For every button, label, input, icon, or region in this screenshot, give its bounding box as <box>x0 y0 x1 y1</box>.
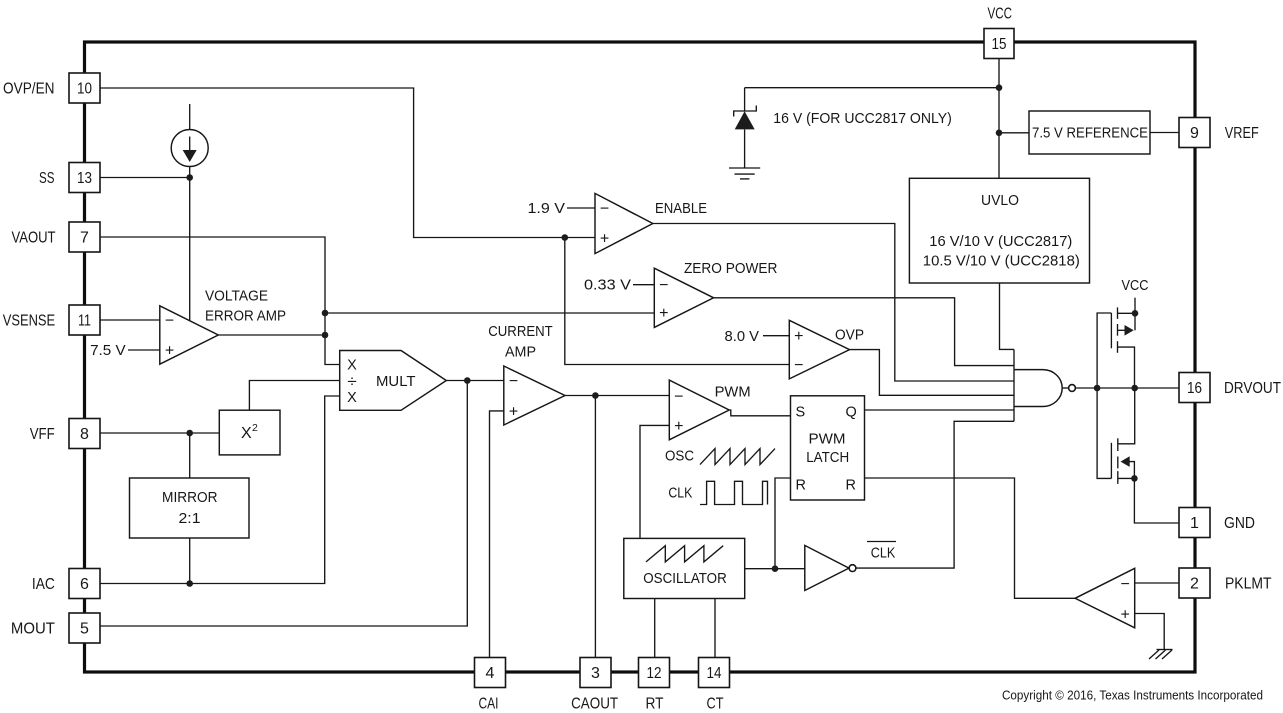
pin 11 VSENSE <box>69 305 100 335</box>
pin 6 IAC <box>69 569 100 599</box>
node error amp output junction <box>322 332 329 339</box>
wire pin7 VAOUT to node A <box>100 237 340 365</box>
svg-text:16: 16 <box>1187 380 1202 397</box>
comparator PWM <box>669 380 729 440</box>
svg-text:VFF: VFF <box>30 426 55 443</box>
pin 14 CT <box>699 658 730 688</box>
wire MULT output node down to pin5 MOUT <box>100 381 467 627</box>
block 7.5 V REFERENCE <box>1029 111 1150 154</box>
wire 0.33V to ZERO POWER minus <box>633 284 654 286</box>
svg-text:11: 11 <box>78 313 91 330</box>
svg-text:ENABLE: ENABLE <box>655 201 707 217</box>
svg-text:CLK: CLK <box>871 546 896 562</box>
svg-text:1: 1 <box>1190 515 1199 532</box>
current source I1 <box>171 104 208 178</box>
svg-text:6: 6 <box>80 576 89 593</box>
multiplier MULT <box>340 351 447 411</box>
wire current amp output to PWM minus <box>565 395 669 397</box>
block MIRROR 2:1 <box>130 478 250 538</box>
svg-text:+: + <box>1121 607 1130 624</box>
svg-text:7.5 V: 7.5 V <box>90 342 126 359</box>
pin 15 VCC <box>984 29 1014 59</box>
svg-text:Copyright © 2016, Texas Instru: Copyright © 2016, Texas Instruments Inco… <box>1002 689 1263 703</box>
node ENABLE plus junction <box>562 234 569 241</box>
ground below zener <box>729 168 760 179</box>
transistor Q2 lower MOSFET <box>1097 388 1135 484</box>
svg-text:CURRENT: CURRENT <box>488 324 553 340</box>
node MULT output junction <box>464 377 471 384</box>
node oscillator output junction <box>772 565 779 572</box>
svg-text:ERROR AMP: ERROR AMP <box>205 309 286 325</box>
svg-text:MULT: MULT <box>376 374 416 390</box>
svg-text:+: + <box>659 305 668 322</box>
svg-text:CT: CT <box>707 696 724 713</box>
outer border of IC block <box>85 42 1196 672</box>
svg-text:X: X <box>347 390 357 406</box>
wire OVP output to NAND input <box>850 350 1015 396</box>
svg-text:VOLTAGE: VOLTAGE <box>205 289 268 305</box>
node current amp output junction <box>592 392 599 399</box>
node DRVOUT <box>1131 385 1138 392</box>
svg-text:2: 2 <box>1190 576 1199 593</box>
block UVLO <box>909 178 1089 283</box>
wire pin8 VFF to X squared block <box>100 432 219 434</box>
gate NAND U4 <box>1014 370 1075 407</box>
wire oscillator node up to latch R input <box>775 478 791 569</box>
svg-text:−: − <box>794 357 803 374</box>
wire ENABLE output to NAND input <box>653 224 1014 382</box>
svg-text:10.5 V/10 V (UCC2818): 10.5 V/10 V (UCC2818) <box>923 254 1080 270</box>
zener diode D1 <box>734 88 757 168</box>
svg-text:9: 9 <box>1190 125 1199 142</box>
pin 7 VAOUT <box>69 222 100 252</box>
wire latch R output to PKLMT comparator output <box>865 478 1076 598</box>
wire MULT output to current amp minus <box>446 380 504 382</box>
svg-text:+: + <box>794 328 803 345</box>
svg-text:R: R <box>846 478 856 494</box>
wire 7.5V reference to pin9 VREF <box>1150 132 1179 134</box>
svg-text:−: − <box>509 373 518 390</box>
node upper MOSFET drain VCC <box>1132 310 1139 317</box>
pin 13 SS <box>69 163 100 193</box>
svg-text:−: − <box>1121 576 1130 593</box>
svg-text:Q: Q <box>846 405 857 421</box>
wire inverter CLK output to NAND bottom input <box>856 421 1014 568</box>
svg-text:−: − <box>165 313 174 330</box>
svg-text:GND: GND <box>1224 515 1255 532</box>
wire oscillator to pin12 RT <box>654 599 656 659</box>
wire PKLMT plus to ground <box>1135 614 1165 650</box>
comparator ZERO POWER <box>654 268 713 327</box>
wire pin10 OVP/EN to ENABLE plus input <box>100 88 595 238</box>
svg-text:7: 7 <box>80 230 89 247</box>
block X squared <box>219 410 280 455</box>
node VFF junction <box>186 430 193 437</box>
wire MIRROR block to IAC wire <box>189 538 191 584</box>
svg-text:OVP/EN: OVP/EN <box>3 81 55 98</box>
svg-text:VCC: VCC <box>1122 277 1149 294</box>
svg-text:÷: ÷ <box>347 372 356 391</box>
wire PWM comparator output to latch S input <box>729 410 790 416</box>
svg-text:−: − <box>600 201 609 218</box>
svg-text:OVP: OVP <box>835 328 864 344</box>
svg-text:CAI: CAI <box>479 696 499 713</box>
inverter U3 <box>805 545 856 590</box>
svg-text:S: S <box>796 405 806 421</box>
svg-text:10: 10 <box>77 81 92 98</box>
svg-text:+: + <box>509 404 518 421</box>
wire lower MOSFET source to pin1 GND <box>1134 478 1179 523</box>
wire pin11 VSENSE to error amp minus <box>100 319 160 321</box>
svg-text:IAC: IAC <box>32 576 55 593</box>
svg-text:ZERO POWER: ZERO POWER <box>684 261 778 277</box>
latch PWM LATCH <box>791 396 865 500</box>
svg-text:5: 5 <box>80 621 89 638</box>
op-amp current amp U2 <box>504 366 565 425</box>
pin 16 DRVOUT <box>1179 373 1210 403</box>
svg-text:3: 3 <box>591 665 600 682</box>
node VCC reference junction <box>996 130 1003 137</box>
svg-text:VSENSE: VSENSE <box>3 313 56 330</box>
wire latch Q output to NAND input <box>865 409 1015 411</box>
waveform CLK pulses <box>700 481 768 504</box>
wire pin15 VCC down to UVLO <box>998 59 1000 179</box>
svg-text:CAOUT: CAOUT <box>571 696 618 713</box>
transistor Q1 upper MOSFET <box>1097 298 1135 388</box>
wire oscillator output to inverter <box>745 568 805 570</box>
svg-text:PWM: PWM <box>715 385 751 401</box>
wire ZERO POWER output to NAND input <box>714 298 1014 366</box>
wire NAND output to pin16 DRVOUT <box>1075 387 1179 389</box>
wire pin3 CAOUT to current amp output node <box>594 396 596 659</box>
block OSCILLATOR <box>624 538 745 598</box>
svg-text:+: + <box>600 231 609 248</box>
svg-text:OSC: OSC <box>665 449 694 465</box>
svg-text:X: X <box>241 425 252 442</box>
svg-text:13: 13 <box>77 170 92 187</box>
svg-text:2: 2 <box>252 422 258 434</box>
wire X squared output to MULT divide input <box>249 381 339 411</box>
wire oscillator to pin14 CT <box>714 599 716 659</box>
svg-text:−: − <box>659 277 668 294</box>
wire NAND input bus <box>1013 349 1015 421</box>
svg-text:VCC: VCC <box>988 6 1013 23</box>
wire node OVP/EN down to OVP minus input <box>565 238 790 365</box>
node VCC zener junction <box>996 84 1003 91</box>
svg-text:15: 15 <box>992 36 1007 53</box>
pin 4 CAI <box>475 658 506 688</box>
svg-text:LATCH: LATCH <box>806 450 849 466</box>
wire error amp output <box>218 334 325 336</box>
svg-text:−: − <box>674 389 683 406</box>
svg-text:DRVOUT: DRVOUT <box>1224 380 1281 397</box>
svg-text:R: R <box>796 478 806 494</box>
pin 12 RT <box>639 658 670 688</box>
svg-text:12: 12 <box>647 665 662 682</box>
svg-text:SS: SS <box>39 170 55 187</box>
svg-text:14: 14 <box>707 665 722 682</box>
wire pin4 CAI to current amp plus <box>490 411 504 658</box>
wire node A to ZERO POWER plus input <box>325 312 654 314</box>
pin 8 VFF <box>69 419 100 449</box>
wire 1.9V to ENABLE minus <box>567 207 595 209</box>
node lower MOSFET source <box>1131 475 1138 482</box>
svg-text:UVLO: UVLO <box>981 193 1019 209</box>
svg-text:MOUT: MOUT <box>11 621 55 638</box>
wire VCC node to zener diode <box>745 87 999 89</box>
svg-text:8: 8 <box>80 426 89 443</box>
svg-text:1.9 V: 1.9 V <box>528 200 566 217</box>
wire UVLO down to NAND bus <box>1000 283 1015 349</box>
waveform OSC sawtooth <box>700 449 775 465</box>
svg-text:+: + <box>165 343 174 360</box>
comparator OVP <box>789 320 849 379</box>
svg-text:+: + <box>674 418 683 435</box>
node SS junction <box>186 174 193 181</box>
wire oscillator to PWM plus input <box>640 425 669 538</box>
label CLK bar <box>867 542 896 562</box>
wire SS node down to error amp <box>189 178 191 321</box>
svg-text:8.0 V: 8.0 V <box>725 328 760 345</box>
svg-text:PKLMT: PKLMT <box>1225 576 1272 593</box>
pin 9 VREF <box>1179 118 1210 148</box>
node VAOUT junction upper <box>322 310 329 317</box>
pin 3 CAOUT <box>580 658 611 688</box>
svg-text:7.5 V REFERENCE: 7.5 V REFERENCE <box>1032 126 1148 142</box>
svg-text:CLK: CLK <box>668 486 692 502</box>
svg-text:2:1: 2:1 <box>179 511 201 527</box>
wire 8.0V to OVP plus <box>763 335 789 337</box>
svg-text:16 V/10 V (UCC2817): 16 V/10 V (UCC2817) <box>929 234 1072 250</box>
svg-text:AMP: AMP <box>505 345 536 361</box>
svg-text:4: 4 <box>486 665 495 682</box>
pin 1 GND <box>1179 508 1210 538</box>
svg-text:MIRROR: MIRROR <box>162 490 218 506</box>
node IAC junction <box>186 580 193 587</box>
pin 5 MOUT <box>69 613 100 643</box>
comparator PKLMT <box>1075 568 1135 628</box>
wire VFF node down to MIRROR block <box>189 433 191 478</box>
node NAND output at gates <box>1094 385 1101 392</box>
svg-text:OSCILLATOR: OSCILLATOR <box>643 571 727 587</box>
ground chassis at PKLMT <box>1149 650 1173 660</box>
svg-text:RT: RT <box>646 696 664 713</box>
op-amp voltage error amp <box>160 306 219 364</box>
wire PKLMT minus to pin2 <box>1135 582 1179 584</box>
comparator ENABLE <box>595 193 653 253</box>
svg-text:VAOUT: VAOUT <box>12 230 56 247</box>
wire 7.5V to error amp plus <box>128 349 160 351</box>
wire pin6 IAC to MULT lower X input <box>100 396 340 584</box>
wire pin13 SS to current source node <box>100 177 190 179</box>
svg-text:16 V (FOR UCC2817 ONLY): 16 V (FOR UCC2817 ONLY) <box>773 110 952 127</box>
svg-text:PWM: PWM <box>809 432 846 448</box>
pin 10 OVP/EN <box>69 73 100 103</box>
svg-text:VREF: VREF <box>1225 125 1259 142</box>
pin 2 PKLMT <box>1179 568 1210 598</box>
wire VCC node to 7.5V reference <box>999 132 1029 134</box>
svg-text:0.33 V: 0.33 V <box>584 277 631 294</box>
